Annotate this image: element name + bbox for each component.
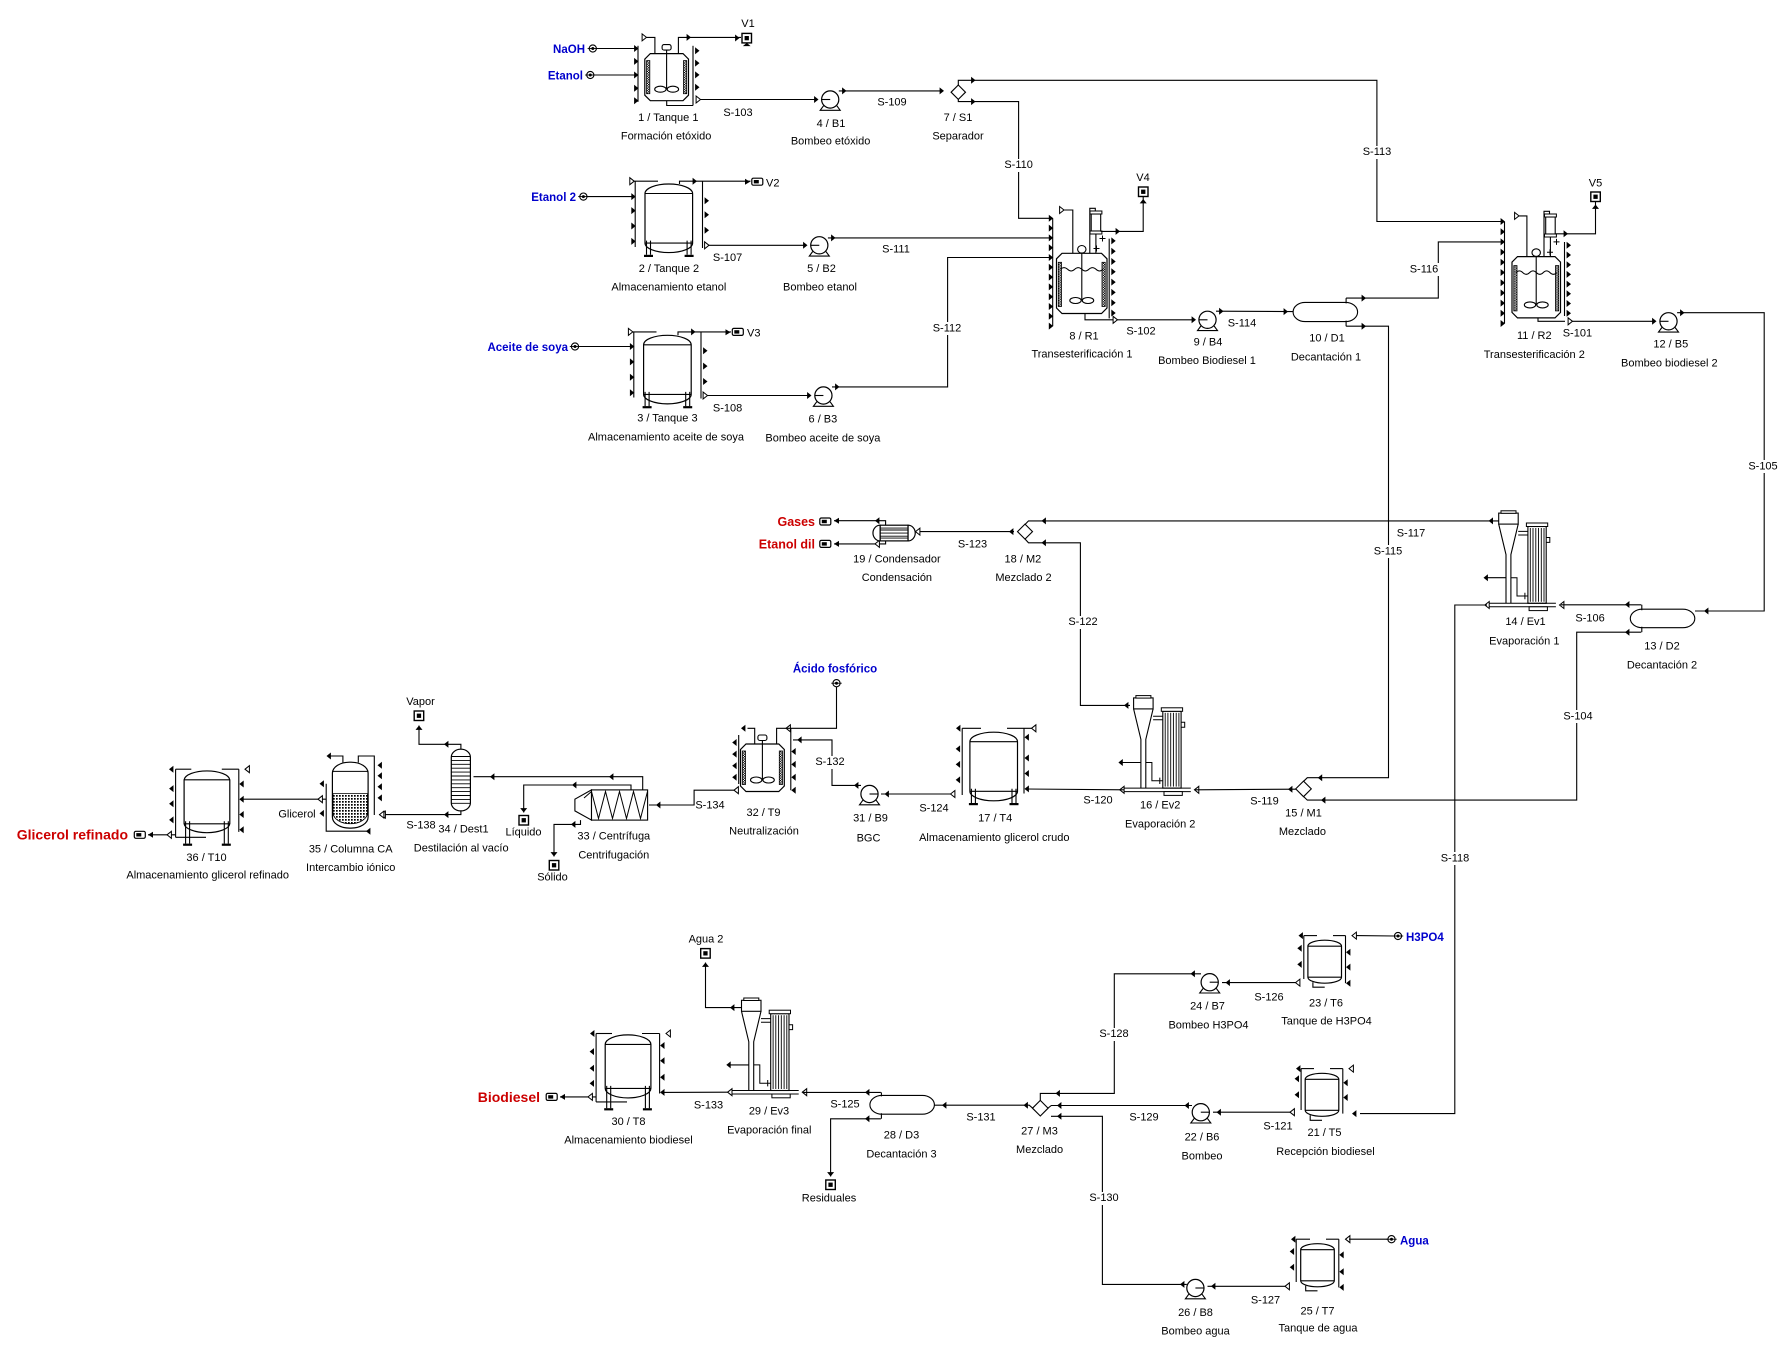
stream S-114 xyxy=(1216,310,1294,312)
stream S-107 xyxy=(705,242,709,249)
tank T3 right frame xyxy=(700,332,702,399)
svg-text:V3: V3 xyxy=(747,328,760,340)
svg-text:18 / M2: 18 / M2 xyxy=(1005,554,1042,566)
svg-text:5 / B2: 5 / B2 xyxy=(807,263,836,275)
svg-text:S-106: S-106 xyxy=(1575,613,1604,625)
svg-text:36 / T10: 36 / T10 xyxy=(186,852,226,864)
svg-text:Líquido: Líquido xyxy=(505,827,541,839)
output port V2 xyxy=(752,178,763,185)
svg-text:S-138: S-138 xyxy=(406,820,435,832)
tank T8 left frame xyxy=(595,1034,597,1102)
svg-text:3 / Tanque 3: 3 / Tanque 3 xyxy=(637,413,697,425)
svg-text:Mezclado: Mezclado xyxy=(1279,826,1326,838)
evaporator Ev2 (16 / Ev2) xyxy=(1134,698,1154,709)
svg-text:Almacenamiento etanol: Almacenamiento etanol xyxy=(611,282,726,294)
stream S-110 bottom branch xyxy=(958,99,1052,218)
tank T7 right frame xyxy=(1338,1239,1340,1287)
reactor R1 right frame xyxy=(1108,239,1110,319)
vent wire V1 xyxy=(678,37,741,53)
stream S-103 xyxy=(696,96,700,103)
splitter S1 (7 / S1) xyxy=(951,85,965,99)
svg-text:S-111: S-111 xyxy=(882,244,910,256)
svg-text:Bombeo aceite de soya: Bombeo aceite de soya xyxy=(765,433,881,445)
tank T3 vessel (3 / Tanque 3) xyxy=(644,335,692,404)
tank T7 top-right port arrow xyxy=(1346,1236,1350,1243)
svg-text:Condensación: Condensación xyxy=(862,572,932,584)
svg-text:16 / Ev2: 16 / Ev2 xyxy=(1140,800,1180,812)
output port Agua 2 xyxy=(701,949,711,959)
svg-text:Sólido: Sólido xyxy=(537,872,568,884)
svg-text:Neutralización: Neutralización xyxy=(729,826,799,838)
svg-text:21 / T5: 21 / T5 xyxy=(1307,1127,1341,1139)
svg-text:Residuales: Residuales xyxy=(802,1193,857,1205)
column CA S-138 inlet arrow xyxy=(380,811,384,818)
svg-text:Almacenamiento glicerol refina: Almacenamiento glicerol refinado xyxy=(126,870,289,882)
stream Etanol dil wire xyxy=(834,541,886,544)
stream S-118 xyxy=(1360,605,1487,1114)
tank T2 right frame xyxy=(702,181,704,248)
column Dest1 (34 / Dest1) xyxy=(451,749,470,811)
stream S-116 xyxy=(1346,242,1504,298)
pump B1 (4 / B1) xyxy=(820,106,840,111)
input port Aceite de soya xyxy=(571,343,578,350)
stream S-109 xyxy=(839,90,940,92)
svg-text:Bombeo biodiesel 2: Bombeo biodiesel 2 xyxy=(1621,358,1718,370)
vent wire V5 xyxy=(1555,202,1595,234)
svg-text:V4: V4 xyxy=(1136,172,1149,184)
svg-text:NaOH: NaOH xyxy=(553,44,585,56)
output port Residuales xyxy=(826,1180,836,1190)
reactor R2 left frame xyxy=(1504,222,1506,324)
svg-text:13 / D2: 13 / D2 xyxy=(1644,641,1679,653)
pump B6 (22 / B6) xyxy=(1191,1118,1211,1123)
svg-text:15 / M1: 15 / M1 xyxy=(1285,808,1322,820)
svg-text:Bombeo Biodiesel 1: Bombeo Biodiesel 1 xyxy=(1158,355,1256,367)
input port Etanol xyxy=(587,71,594,78)
tank T6 right frame xyxy=(1345,936,1347,984)
stream Solido xyxy=(554,820,581,856)
wire Etanol 2 to tank2 xyxy=(587,196,635,198)
tank T6 top-right port arrow xyxy=(1352,932,1356,939)
stream S-131 xyxy=(934,1105,1032,1108)
svg-text:Evaporación final: Evaporación final xyxy=(727,1125,811,1137)
svg-text:Etanol 2: Etanol 2 xyxy=(531,192,576,204)
stream S-105 xyxy=(1677,313,1764,611)
svg-text:S-126: S-126 xyxy=(1254,992,1283,1004)
tank T1 top-left port arrow xyxy=(642,34,646,41)
stream S-104 xyxy=(1304,632,1642,800)
tank T2 vessel (2 / Tanque 2) xyxy=(645,184,693,253)
stream S-113 top branch xyxy=(958,80,1504,221)
tank T5 right frame xyxy=(1342,1069,1344,1114)
stream S-108 xyxy=(703,392,707,399)
svg-text:S-130: S-130 xyxy=(1089,1192,1118,1204)
decanter D1 (10 / D1) xyxy=(1293,302,1358,321)
pump B3 (6 / B3) xyxy=(813,402,833,407)
svg-text:23 / T6: 23 / T6 xyxy=(1309,998,1343,1010)
column CA right frame xyxy=(358,756,374,815)
svg-text:S-124: S-124 xyxy=(919,803,948,815)
svg-text:S-103: S-103 xyxy=(723,107,752,119)
tank T10 vessel (36 / T10) xyxy=(184,771,230,833)
svg-text:Recepción biodiesel: Recepción biodiesel xyxy=(1276,1146,1374,1158)
stream S-118 arrow into T5 xyxy=(1352,1110,1356,1117)
stream S-112 xyxy=(832,258,1053,387)
tank T3 top-left port arrow xyxy=(628,328,632,335)
svg-text:26 / B8: 26 / B8 xyxy=(1178,1307,1213,1319)
svg-text:S-105: S-105 xyxy=(1748,461,1777,473)
svg-text:Almacenamiento aceite de soya: Almacenamiento aceite de soya xyxy=(588,432,745,444)
reactor T9 left frame xyxy=(738,735,740,784)
stream S-130 xyxy=(1051,1116,1187,1284)
svg-text:25 / T7: 25 / T7 xyxy=(1300,1306,1334,1318)
svg-text:10 / D1: 10 / D1 xyxy=(1309,333,1344,345)
mixer M1 (15 / M1) xyxy=(1296,781,1312,797)
svg-text:Glicerol: Glicerol xyxy=(278,809,315,821)
tank T10 top-right port arrow xyxy=(245,766,249,773)
tank T10 right frame xyxy=(238,769,240,832)
tank T3 left frame xyxy=(633,332,635,398)
svg-text:Bombeo agua: Bombeo agua xyxy=(1161,1326,1230,1338)
stream S-128 xyxy=(1040,974,1201,1101)
svg-text:Ácido fosfórico: Ácido fosfórico xyxy=(793,663,877,676)
svg-text:S-102: S-102 xyxy=(1126,326,1155,338)
svg-text:S-115: S-115 xyxy=(1374,546,1403,558)
tank T2 top-left port arrow xyxy=(630,178,634,185)
stream S-101 xyxy=(1538,318,1565,321)
svg-text:Bombeo: Bombeo xyxy=(1182,1151,1223,1163)
input port Agua xyxy=(1388,1236,1395,1243)
stream S-125 xyxy=(803,1091,881,1093)
svg-text:S-129: S-129 xyxy=(1129,1112,1158,1124)
svg-text:Bombeo H3PO4: Bombeo H3PO4 xyxy=(1168,1020,1248,1032)
tank T2 left frame xyxy=(634,181,636,247)
wire Agua to T7 xyxy=(1349,1238,1388,1240)
svg-text:31 / B9: 31 / B9 xyxy=(853,813,888,825)
output port Liquido xyxy=(519,816,529,826)
svg-text:33 / Centrífuga: 33 / Centrífuga xyxy=(577,831,651,843)
tank T1 left inlet frame xyxy=(637,46,639,102)
stream S-127 xyxy=(1285,1283,1289,1290)
pump B2 (5 / B2) xyxy=(809,252,829,257)
reactor R1 left frame xyxy=(1052,218,1054,326)
stream S-138 xyxy=(379,811,461,815)
stream S-126 xyxy=(1296,979,1300,986)
svg-text:Agua 2: Agua 2 xyxy=(689,934,724,946)
tank T5 top-right port arrow xyxy=(1349,1065,1353,1072)
tank T4 vessel (17 / T4) xyxy=(970,732,1018,801)
svg-text:BGC: BGC xyxy=(857,833,881,845)
output port Solido xyxy=(549,861,559,871)
svg-text:29 / Ev3: 29 / Ev3 xyxy=(749,1106,789,1118)
svg-text:Decantación 3: Decantación 3 xyxy=(866,1149,936,1161)
svg-text:19 / Condensador: 19 / Condensador xyxy=(853,554,941,566)
reactor R1 vessel (8 / R1) xyxy=(1057,253,1108,313)
input port Acido fosforico xyxy=(833,680,840,687)
svg-text:Etanol dil: Etanol dil xyxy=(759,538,815,552)
svg-text:Bombeo etóxido: Bombeo etóxido xyxy=(791,136,871,148)
stream S-119 xyxy=(1195,788,1296,791)
svg-text:8 / R1: 8 / R1 xyxy=(1069,331,1098,343)
tank T8 top-right port arrow xyxy=(666,1030,670,1037)
output port V5 xyxy=(1591,192,1601,202)
svg-text:S-110: S-110 xyxy=(1004,159,1033,171)
tank T4 top-right port arrow xyxy=(1032,725,1036,732)
svg-text:Tanque de H3PO4: Tanque de H3PO4 xyxy=(1281,1016,1372,1028)
stream S-102 xyxy=(1085,314,1114,320)
tank T4 left frame xyxy=(961,728,963,795)
svg-text:Almacenamiento biodiesel: Almacenamiento biodiesel xyxy=(564,1135,692,1147)
stream S-121 xyxy=(1290,1109,1294,1116)
stream S-106 xyxy=(1561,604,1641,606)
evaporator Ev1 (14 / Ev1) xyxy=(1499,513,1519,524)
condenser 19 / Condensador shell xyxy=(873,525,880,541)
svg-text:Mezclado: Mezclado xyxy=(1016,1144,1063,1156)
svg-text:S-119: S-119 xyxy=(1250,796,1279,808)
svg-text:Evaporación 1: Evaporación 1 xyxy=(1489,636,1559,648)
svg-text:S-121: S-121 xyxy=(1263,1121,1292,1133)
wire Aceite de soya to tank3 xyxy=(579,346,634,348)
pump B8 (26 / B8) xyxy=(1185,1294,1205,1299)
input port NaOH xyxy=(589,45,596,52)
pump B7 (24 / B7) xyxy=(1200,988,1220,993)
reactor R2 vessel (11 / R2) xyxy=(1512,257,1561,318)
tank T6 left frame xyxy=(1303,936,1305,979)
svg-text:9 / B4: 9 / B4 xyxy=(1194,337,1223,349)
tank T7 left frame xyxy=(1295,1239,1297,1282)
stream S-117 xyxy=(1025,521,1499,525)
stream S-120 xyxy=(1025,788,1124,791)
column CA top-left pipe xyxy=(329,756,343,763)
column CA left frame xyxy=(326,784,369,832)
vent wire V4 xyxy=(1101,197,1144,232)
pump B4 (9 / B4) xyxy=(1198,326,1218,331)
reactor R1 top-left port arrow xyxy=(1060,207,1064,214)
reactor T9 vessel (32 / T9) Neutralizacion xyxy=(741,744,785,792)
svg-text:S-107: S-107 xyxy=(713,252,742,264)
svg-text:S-134: S-134 xyxy=(695,800,724,812)
svg-text:Agua: Agua xyxy=(1400,1236,1429,1248)
wire Etanol to tank1 xyxy=(594,74,638,76)
centrifuge 33 body xyxy=(575,790,592,820)
svg-text:V1: V1 xyxy=(741,18,754,30)
input port Etanol 2 xyxy=(580,193,587,200)
svg-text:S-109: S-109 xyxy=(877,97,906,109)
svg-text:Evaporación 2: Evaporación 2 xyxy=(1125,819,1195,831)
stream S-122 xyxy=(1025,539,1130,705)
output port Glicerol refinado xyxy=(134,831,145,838)
tank T10 left frame xyxy=(175,769,177,837)
svg-text:V2: V2 xyxy=(766,178,779,190)
reactor R1 reflux condenser xyxy=(1090,208,1096,253)
pump B5 (12 / B5) xyxy=(1659,328,1679,333)
svg-text:S-116: S-116 xyxy=(1410,264,1439,276)
tank T1 bottom outlet pipe xyxy=(667,101,693,106)
svg-text:35 / Columna CA: 35 / Columna CA xyxy=(309,844,393,856)
svg-text:34 / Dest1: 34 / Dest1 xyxy=(438,824,488,836)
output port V3 xyxy=(732,328,743,335)
evaporator Ev3 (29 / Ev3) xyxy=(742,1000,762,1011)
stream Biodiesel wire xyxy=(560,1096,596,1098)
tank T5 left frame xyxy=(1300,1069,1302,1110)
reactor R2 reflux condenser xyxy=(1544,211,1550,256)
svg-text:S-113: S-113 xyxy=(1363,146,1392,158)
svg-text:Centrifugación: Centrifugación xyxy=(578,850,649,862)
output port Biodiesel xyxy=(546,1093,557,1100)
svg-text:S-101: S-101 xyxy=(1563,328,1592,340)
svg-text:S-127: S-127 xyxy=(1251,1295,1280,1307)
tank T1 right frame xyxy=(692,46,694,106)
svg-text:S-104: S-104 xyxy=(1563,711,1592,723)
svg-text:Decantación 2: Decantación 2 xyxy=(1627,660,1697,672)
svg-text:S-108: S-108 xyxy=(713,403,742,415)
stream S-123 xyxy=(920,531,1014,533)
svg-text:V5: V5 xyxy=(1589,178,1602,190)
svg-text:1 / Tanque 1: 1 / Tanque 1 xyxy=(638,112,698,124)
svg-text:S-123: S-123 xyxy=(958,539,987,551)
svg-text:Destilación al vacío: Destilación al vacío xyxy=(414,843,509,855)
input port H3PO4 xyxy=(1394,932,1401,939)
svg-text:17 / T4: 17 / T4 xyxy=(978,813,1012,825)
wire NaOH to tank1 xyxy=(597,48,638,50)
svg-text:6 / B3: 6 / B3 xyxy=(809,414,838,426)
stream Glicerol xyxy=(240,798,326,800)
stream Agua 2 wire xyxy=(706,963,742,1008)
svg-text:S-120: S-120 xyxy=(1083,795,1112,807)
svg-text:11 / R2: 11 / R2 xyxy=(1517,330,1552,342)
tank T2 vent wire V2 xyxy=(680,181,751,184)
stream S-133 xyxy=(661,1091,728,1093)
svg-text:S-112: S-112 xyxy=(933,323,962,335)
stream Residuales wire xyxy=(831,1119,881,1177)
svg-text:24 / B7: 24 / B7 xyxy=(1190,1001,1225,1013)
stream Liquido xyxy=(524,785,631,813)
output port Vapor xyxy=(414,711,424,721)
tank T4 right frame xyxy=(1023,728,1025,793)
svg-text:S-125: S-125 xyxy=(830,1099,859,1111)
decanter D2 (13 / D2) xyxy=(1630,609,1695,628)
stream S-132 xyxy=(793,740,861,786)
stream S-134 xyxy=(734,787,738,794)
svg-text:32 / T9: 32 / T9 xyxy=(746,807,780,819)
svg-text:14 / Ev1: 14 / Ev1 xyxy=(1505,616,1545,628)
svg-text:Vapor: Vapor xyxy=(406,696,435,708)
svg-text:Tanque de agua: Tanque de agua xyxy=(1279,1323,1359,1335)
svg-text:Formación etóxido: Formación etóxido xyxy=(621,131,712,143)
svg-text:S-128: S-128 xyxy=(1099,1028,1128,1040)
stream S-124 xyxy=(951,791,955,798)
svg-text:27 / M3: 27 / M3 xyxy=(1021,1126,1058,1138)
stream S-111 xyxy=(828,237,1053,239)
reactor R2 top-left port arrow xyxy=(1515,212,1519,219)
svg-text:Etanol: Etanol xyxy=(548,71,583,83)
svg-text:Transesterificación 1: Transesterificación 1 xyxy=(1031,349,1132,361)
pump B9 (31 / B9) xyxy=(860,800,880,805)
svg-text:Bombeo etanol: Bombeo etanol xyxy=(783,282,857,294)
svg-text:S-117: S-117 xyxy=(1397,528,1426,540)
svg-text:S-131: S-131 xyxy=(966,1112,995,1124)
svg-text:Decantación 1: Decantación 1 xyxy=(1291,352,1361,364)
svg-text:2 / Tanque 2: 2 / Tanque 2 xyxy=(639,263,699,275)
wire H3PO4 to T6 xyxy=(1356,935,1394,937)
output port Gases xyxy=(820,518,831,525)
svg-text:4 / B1: 4 / B1 xyxy=(817,118,846,130)
svg-text:Biodiesel: Biodiesel xyxy=(478,1089,540,1105)
svg-text:Separador: Separador xyxy=(932,131,984,143)
svg-text:7 / S1: 7 / S1 xyxy=(944,112,973,124)
stream Glicerol refinado wire xyxy=(148,834,176,836)
tank T3 vent wire V3 xyxy=(678,332,731,335)
tank T5 vessel (21 / T5) xyxy=(1305,1073,1339,1116)
stream S-115 xyxy=(1304,326,1389,781)
svg-text:Gases: Gases xyxy=(777,515,815,529)
svg-text:H3PO4: H3PO4 xyxy=(1406,932,1444,944)
tank T8 right frame xyxy=(659,1034,661,1094)
svg-text:Almacenamiento glicerol crudo: Almacenamiento glicerol crudo xyxy=(919,832,1069,844)
svg-text:22 / B6: 22 / B6 xyxy=(1185,1132,1220,1144)
svg-text:S-132: S-132 xyxy=(815,756,844,768)
stream S-129 xyxy=(1048,1106,1192,1109)
output port V4 xyxy=(1139,187,1149,197)
tank T7 vessel (25 / T7) xyxy=(1301,1244,1335,1287)
reactor R2 right frame xyxy=(1564,242,1566,316)
reactor T9 right frame xyxy=(790,728,792,790)
tank T6 vessel (23 / T6) xyxy=(1308,940,1342,983)
column CA (35 / Columna CA) xyxy=(332,762,368,828)
reactor T9 top-left arrow xyxy=(741,725,745,732)
mixer M3 (27 / M3) xyxy=(1033,1100,1049,1116)
stream Vapor xyxy=(419,726,461,750)
tank T8 vessel (30 / T8) xyxy=(605,1035,651,1098)
tank T1 vessel (1 / Tanque 1) xyxy=(645,54,689,101)
mixer M2 (18 / M2) xyxy=(1018,524,1033,539)
svg-text:S-122: S-122 xyxy=(1068,616,1097,628)
output port V1 xyxy=(742,33,752,43)
svg-text:Glicerol refinado: Glicerol refinado xyxy=(17,827,128,843)
stream centrifuge to Dest1 xyxy=(474,777,643,790)
svg-text:Intercambio iónico: Intercambio iónico xyxy=(306,862,395,874)
svg-text:Mezclado 2: Mezclado 2 xyxy=(995,572,1051,584)
output port Etanol dil xyxy=(820,540,831,547)
svg-text:S-133: S-133 xyxy=(694,1100,723,1112)
svg-text:28 / D3: 28 / D3 xyxy=(884,1130,919,1142)
svg-text:S-118: S-118 xyxy=(1441,853,1470,865)
svg-text:30 / T8: 30 / T8 xyxy=(611,1116,645,1128)
svg-text:Transesterificación 2: Transesterificación 2 xyxy=(1484,349,1585,361)
svg-text:12 / B5: 12 / B5 xyxy=(1653,339,1688,351)
decanter D3 (28 / D3) xyxy=(870,1095,935,1114)
wire Acido fosforico to T9 xyxy=(789,687,837,728)
svg-text:Aceite de soya: Aceite de soya xyxy=(487,342,568,354)
stream Gases wire xyxy=(834,521,886,526)
svg-text:S-114: S-114 xyxy=(1228,318,1257,330)
